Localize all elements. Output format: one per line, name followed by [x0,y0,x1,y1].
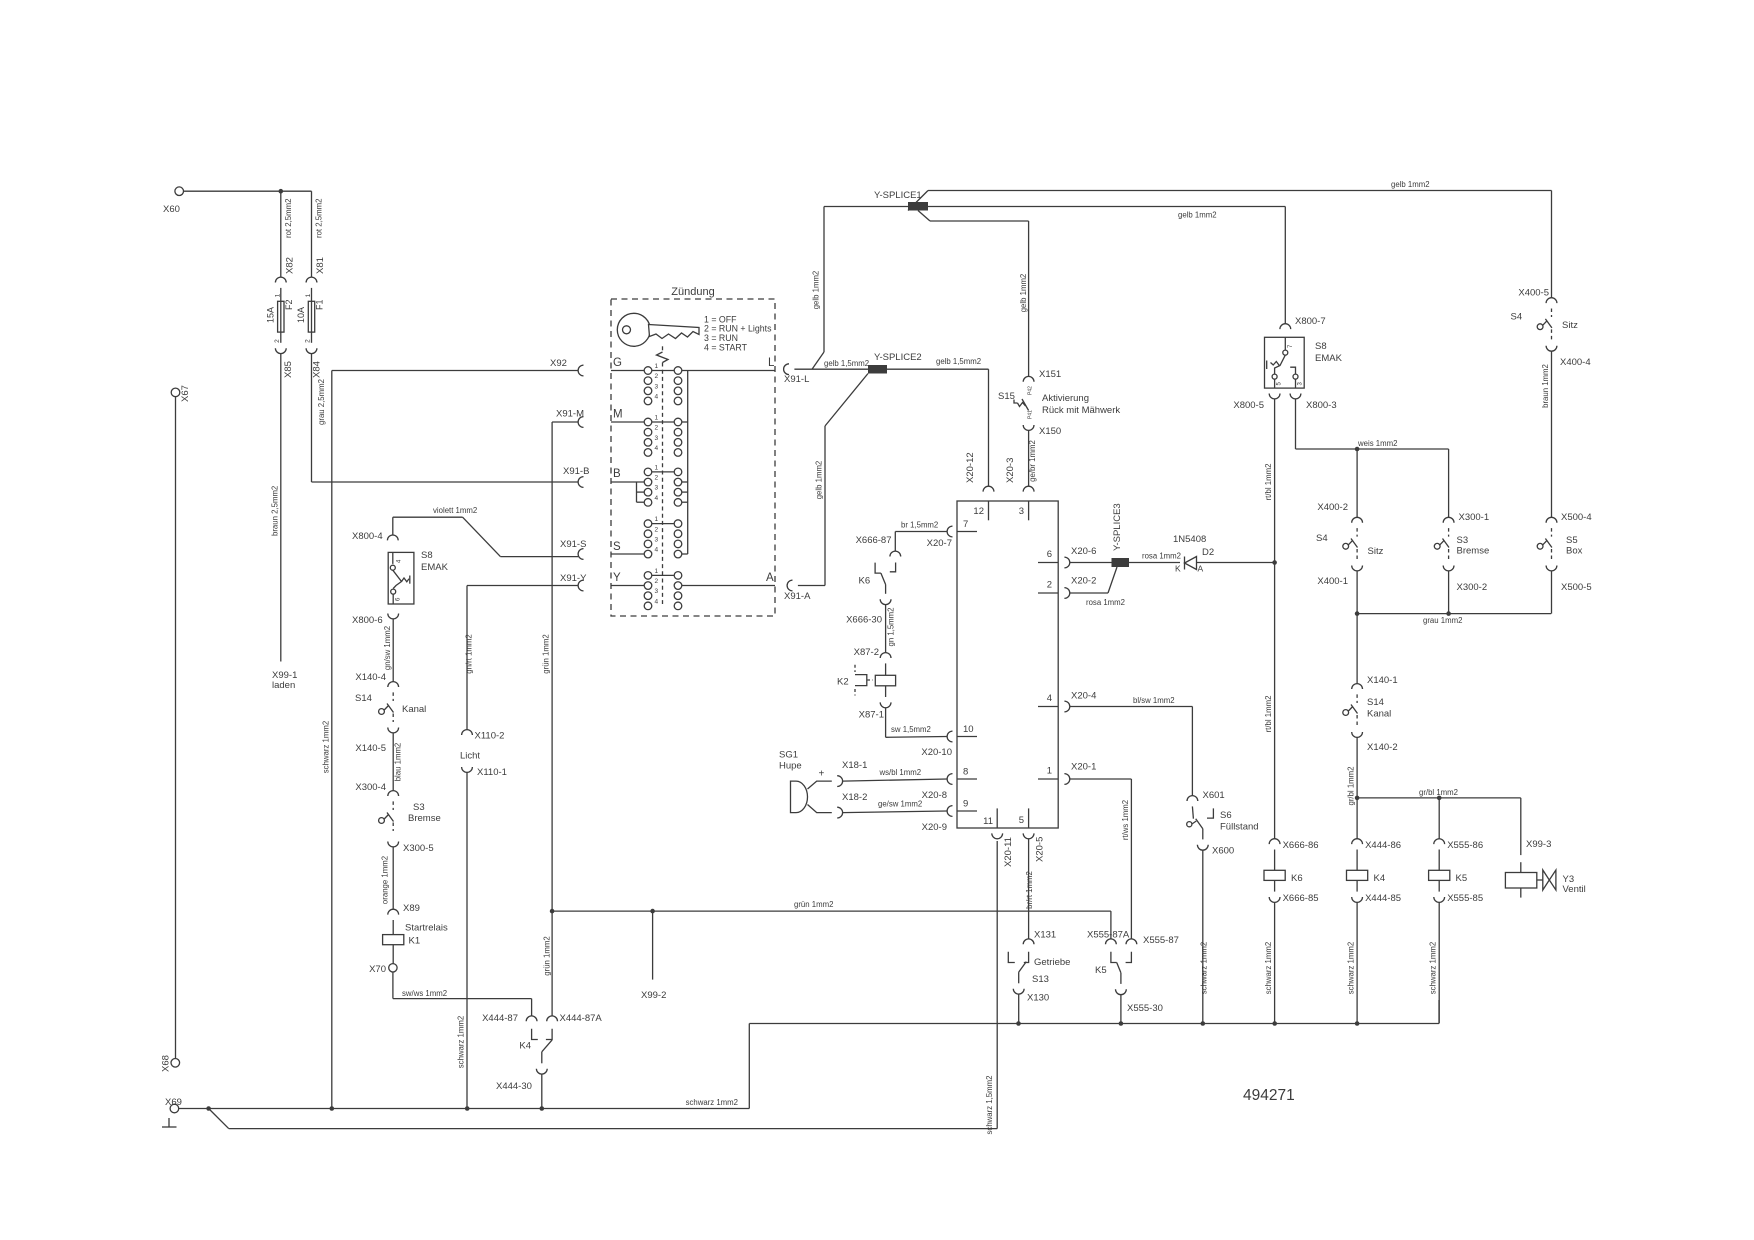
wire grau to X91-B [312,354,579,482]
svg-text:A: A [766,572,774,584]
svg-text:rt/bl 1mm2: rt/bl 1mm2 [1264,696,1273,733]
svg-text:4: 4 [655,445,659,452]
lamp label Licht [460,751,480,762]
wire X91-Y to Licht [464,586,578,730]
junction [650,909,655,914]
wire schwarz S6 [1200,850,1209,1023]
svg-text:Bremse: Bremse [1457,546,1490,557]
ignition contact circles [644,363,682,610]
svg-text:grau 1mm2: grau 1mm2 [1423,616,1462,625]
svg-text:S5: S5 [1566,535,1578,546]
svg-text:X140-1: X140-1 [1367,675,1398,686]
svg-text:K6: K6 [859,576,871,587]
svg-text:5: 5 [1019,815,1024,826]
wire [1129,552,1181,563]
junction [1355,611,1360,616]
svg-text:X555-87A: X555-87A [1087,930,1130,941]
svg-text:Y-SPLICE3: Y-SPLICE3 [1112,503,1123,551]
svg-text:rosa 1mm2: rosa 1mm2 [1086,598,1125,607]
connector X555-86 [1434,839,1483,851]
svg-text:3: 3 [655,536,659,543]
connector X20-10 [921,731,952,758]
connector X400-2 [1317,502,1362,523]
connector X800-3 [1290,394,1337,412]
wire ws/bl [843,768,948,781]
svg-text:+: + [819,769,825,780]
svg-text:X87-1: X87-1 [859,710,884,721]
svg-text:gelb 1mm2: gelb 1mm2 [1019,274,1028,313]
svg-text:ge/br 1mm2: ge/br 1mm2 [1028,440,1037,482]
wire br [895,521,947,552]
connector X85 [275,348,294,378]
wire rosa [1070,562,1112,564]
svg-text:X67: X67 [180,385,191,402]
svg-text:X555-85: X555-85 [1447,893,1483,904]
svg-text:X20-1: X20-1 [1071,762,1096,773]
svg-text:gelb 1mm2: gelb 1mm2 [812,271,821,310]
pin 9 [957,799,977,812]
relay contact K4 [519,1029,552,1064]
svg-text:X500-4: X500-4 [1561,512,1592,523]
svg-text:X444-87A: X444-87A [560,1013,603,1024]
terminal G [611,357,644,371]
svg-text:X400-5: X400-5 [1518,288,1549,299]
wire sw/ws [393,972,532,999]
svg-text:EMAK: EMAK [1315,353,1343,364]
svg-text:X69: X69 [165,1097,182,1108]
svg-text:1: 1 [655,415,659,422]
svg-text:X444-30: X444-30 [496,1081,532,1092]
connector X555-85 [1434,893,1483,904]
svg-text:L: L [768,357,775,369]
junction [550,909,555,914]
relay coil K4 [1347,850,1386,892]
svg-text:X91-M: X91-M [556,409,584,420]
junction [1437,796,1442,801]
pin 6 [1038,549,1058,563]
svg-text:X555-87: X555-87 [1143,935,1179,946]
connector X20-1 [1064,762,1096,785]
svg-text:X89: X89 [403,903,420,914]
svg-text:G: G [613,357,622,369]
wire to X91-A [798,374,868,586]
connector X666-86 [1269,839,1318,851]
svg-text:Aktivierung: Aktivierung [1042,393,1089,404]
svg-text:weis 1mm2: weis 1mm2 [1357,439,1397,448]
terminal B [611,468,644,502]
svg-text:schwarz 1mm2: schwarz 1mm2 [686,1098,738,1107]
svg-text:10: 10 [963,724,974,735]
connector X601 [1187,790,1225,801]
wire bl/sw [1070,696,1193,796]
connector X400-1 [1317,566,1362,588]
svg-text:gelb 1,5mm2: gelb 1,5mm2 [824,359,869,368]
wire orange [381,847,394,909]
svg-text:S8: S8 [421,550,433,561]
connector X400-5 [1518,288,1557,304]
svg-text:X800-4: X800-4 [352,531,383,542]
svg-text:ws/bl 1mm2: ws/bl 1mm2 [879,768,922,777]
splice Y-SPLICE2 [868,352,922,374]
connector X20-12 [965,452,994,491]
svg-text:7: 7 [963,519,968,530]
svg-text:1N5408: 1N5408 [1173,534,1206,545]
connector X91-A [784,580,811,602]
pin 2 [1038,580,1058,594]
svg-text:gelb 1,5mm2: gelb 1,5mm2 [936,357,981,366]
pin 3 [1019,501,1029,520]
svg-text:X85: X85 [283,361,294,378]
connector X140-1 [1352,675,1398,689]
svg-text:X300-4: X300-4 [355,782,386,793]
horn SG1 Hupe [779,750,832,813]
connector X20-7 [927,526,953,549]
connector X140-5 [355,728,398,755]
connector X444-86 [1352,839,1401,851]
svg-text:S14: S14 [355,693,372,704]
svg-text:X91-A: X91-A [784,591,811,602]
svg-text:2: 2 [655,526,659,533]
connector X300-1 [1443,512,1489,523]
svg-text:schwarz 1,5mm2: schwarz 1,5mm2 [985,1076,994,1135]
connector X18-1 [837,760,867,787]
junction [1201,1021,1206,1026]
wire ground bus 2 [209,841,998,1129]
svg-text:gn/rt 1mm2: gn/rt 1mm2 [464,634,473,673]
connector X20-4 [1064,691,1096,712]
connector X18-2 [837,792,867,818]
svg-text:X555-30: X555-30 [1127,1003,1163,1014]
svg-text:X87-2: X87-2 [854,647,879,658]
svg-text:rot 2,5mm2: rot 2,5mm2 [284,199,293,238]
svg-text:Zündung: Zündung [671,286,714,298]
legend [704,314,772,352]
svg-text:M: M [613,409,623,421]
connector X91-M [556,409,584,428]
connector X20-9 [922,806,953,833]
svg-text:X91-S: X91-S [560,539,586,550]
connector X800-7 [1280,316,1326,329]
connector X20-11 [992,833,1014,867]
relay contact K5 [1095,952,1131,984]
svg-text:schwarz 1mm2: schwarz 1mm2 [321,721,330,773]
wire gelb top [928,180,1552,191]
terminal X68 [161,1055,180,1072]
svg-text:X81: X81 [315,257,326,274]
svg-text:X99-3: X99-3 [1526,839,1551,850]
switch S13 Getriebe [1008,952,1070,985]
junction [1119,1021,1124,1026]
connector X300-4 [355,782,398,796]
wire [1448,571,1450,614]
svg-text:X600: X600 [1212,846,1234,857]
wire [541,1074,543,1108]
svg-text:bl/sw 1mm2: bl/sw 1mm2 [1133,696,1175,705]
wire gelb right arm [928,207,1285,324]
svg-text:Sitz: Sitz [1562,320,1578,331]
svg-text:4: 4 [1047,693,1052,704]
connector X20-6 [1064,546,1096,568]
svg-text:Y-SPLICE2: Y-SPLICE2 [874,352,922,363]
svg-text:X91-Y: X91-Y [560,573,587,584]
svg-text:F1: F1 [315,299,325,310]
svg-text:X131: X131 [1034,930,1056,941]
connector X555-30 [1116,989,1163,1014]
svg-text:S3: S3 [413,802,425,813]
svg-text:X300-5: X300-5 [403,843,434,854]
svg-text:grün 1mm2: grün 1mm2 [794,900,833,909]
fuse F2 [266,288,295,343]
switch S8 EMAK left [388,550,448,604]
junction [540,1106,545,1111]
svg-text:X601: X601 [1203,790,1225,801]
svg-text:K4: K4 [1374,873,1386,884]
connector X555-87A [1087,930,1130,945]
svg-text:15A: 15A [266,307,276,323]
svg-text:Y: Y [613,572,621,584]
switch S4 Sitz [1316,528,1384,560]
svg-text:X130: X130 [1027,993,1049,1004]
svg-text:S13: S13 [1032,974,1049,985]
connector X600 [1197,845,1234,857]
svg-text:S4: S4 [1316,533,1328,544]
wire weis [1296,399,1449,449]
svg-text:ge/sw 1mm2: ge/sw 1mm2 [878,800,922,809]
svg-text:3: 3 [655,383,659,390]
wire X99-2 [641,911,666,1001]
connector X151 [1023,369,1061,382]
svg-text:9: 9 [963,799,968,810]
wire [1356,449,1358,517]
svg-text:X20-2: X20-2 [1071,576,1096,587]
svg-text:Kanal: Kanal [1367,709,1391,720]
wire gelb S15 arm [918,211,1029,377]
svg-text:X140-4: X140-4 [355,672,386,683]
svg-text:1: 1 [655,464,659,471]
svg-text:X110-2: X110-2 [475,731,505,742]
svg-text:X151: X151 [1039,369,1061,380]
svg-text:X82: X82 [285,257,296,274]
relay coil K1 Startrelais [383,920,448,964]
svg-text:gelb 1mm2: gelb 1mm2 [1178,211,1217,220]
svg-text:gr/bl 1mm2: gr/bl 1mm2 [1347,767,1356,806]
svg-text:orange 1mm2: orange 1mm2 [381,856,390,904]
svg-text:Startrelais: Startrelais [405,923,448,934]
connector X444-87A [547,1013,603,1024]
terminal M [611,409,644,423]
terminal L [768,357,775,369]
pin 11 [983,808,997,828]
connector X87-2 [854,647,891,658]
connector X140-2 [1352,732,1398,753]
terminal S [611,541,644,554]
connector X130 [1013,989,1049,1004]
junction [465,1106,470,1111]
svg-text:br/rt 1mm2: br/rt 1mm2 [1025,871,1034,909]
svg-text:S4: S4 [1511,312,1523,323]
svg-text:4 = START: 4 = START [704,343,748,353]
wire [1120,995,1122,1024]
wire schwarz [1264,902,1275,1023]
svg-text:rt/ws 1mm2: rt/ws 1mm2 [1121,800,1130,840]
svg-text:X68: X68 [161,1055,172,1072]
svg-text:Box: Box [1566,546,1583,557]
wire gn/sw [383,619,393,682]
terminal X67 [171,385,191,402]
svg-text:1: 1 [655,516,659,523]
connector X20-5 [1023,833,1045,862]
wire rt/ws [1070,779,1132,939]
connector X91-B [563,466,589,487]
wire sw [886,708,948,738]
wire label [686,1098,738,1107]
key shaft [657,346,669,604]
svg-text:P42: P42 [1028,386,1034,395]
terminal A [766,572,774,584]
svg-text:X444-86: X444-86 [1365,840,1401,851]
svg-text:3: 3 [655,435,659,442]
wire schwarz X92 [321,371,578,1109]
svg-text:11: 11 [983,816,993,827]
svg-text:Bremse: Bremse [408,813,441,824]
svg-text:schwarz 1mm2: schwarz 1mm2 [1264,942,1273,994]
svg-text:X555-86: X555-86 [1447,840,1483,851]
terminal X70 [369,964,397,975]
wire gelb left arm [812,207,909,370]
switch S5 Box [1537,528,1582,560]
svg-text:2: 2 [305,339,312,343]
wire gr/bl bus [1357,788,1521,798]
junction [1272,1021,1277,1026]
ignition switch box Zuendung [611,286,775,616]
contact links [652,371,775,586]
svg-text:X800-3: X800-3 [1306,400,1337,411]
svg-text:X150: X150 [1039,426,1061,437]
svg-text:Sitz: Sitz [1368,546,1384,557]
junction [1272,560,1277,565]
switch S3 Bremse [379,801,441,831]
pin 8 [957,767,977,780]
wire violett [393,506,578,557]
svg-text:X92: X92 [550,358,567,369]
svg-text:1: 1 [655,363,659,370]
svg-text:X20-5: X20-5 [1035,837,1046,862]
svg-text:blau 1mm2: blau 1mm2 [394,743,403,782]
svg-text:schwarz 1mm2: schwarz 1mm2 [1429,942,1438,994]
svg-text:Ventil: Ventil [1563,884,1586,895]
connector X110-2 [462,730,505,742]
svg-text:gr/bl 1mm2: gr/bl 1mm2 [1419,788,1458,797]
svg-text:sw 1,5mm2: sw 1,5mm2 [891,725,931,734]
svg-text:X800-6: X800-6 [352,615,383,626]
connector X84 [306,348,322,378]
collector wire [687,371,689,555]
connector X150 [1023,425,1061,437]
svg-text:B: B [613,468,621,480]
wire rt/bl [1264,399,1275,839]
drawing number [1243,1087,1295,1104]
svg-text:1: 1 [655,568,659,575]
connector X800-4 [352,531,398,542]
connector X131 [1023,930,1056,945]
connector X81 [306,277,317,282]
solenoid Y3 Ventil [1505,862,1585,897]
svg-text:X20-11: X20-11 [1003,837,1014,867]
terminal X69 [165,1097,182,1113]
svg-text:S8: S8 [1315,341,1327,352]
ground [162,1118,177,1127]
wire schwarz [1429,902,1440,1023]
svg-text:X300-2: X300-2 [1457,582,1488,593]
connector X300-5 [388,842,434,855]
svg-text:X99-2: X99-2 [641,990,666,1001]
switch S14 Kanal [355,692,426,722]
svg-text:X91-L: X91-L [784,374,809,385]
svg-text:X400-2: X400-2 [1317,502,1348,513]
svg-text:3: 3 [1019,506,1024,517]
wire [1356,798,1358,839]
svg-text:braun 2,5mm2: braun 2,5mm2 [271,486,280,536]
svg-text:X444-85: X444-85 [1365,893,1401,904]
svg-text:EMAK: EMAK [421,562,449,573]
svg-text:2: 2 [655,373,659,380]
switch S6 Fuellstand [1187,806,1259,839]
svg-text:sw/ws 1mm2: sw/ws 1mm2 [402,989,447,998]
svg-text:X400-4: X400-4 [1560,357,1591,368]
wire gruen X91-M [542,422,579,1016]
svg-text:D2: D2 [1202,547,1214,558]
wire [1448,449,1450,517]
svg-text:F2: F2 [284,299,294,310]
terminal X99-1 laden [272,670,297,691]
svg-text:X444-87: X444-87 [482,1013,518,1024]
svg-text:4: 4 [655,495,659,502]
pin 10 [957,724,977,737]
wire [175,397,177,1059]
connector X92 [550,358,584,376]
svg-text:K: K [1175,564,1181,574]
wire rosa 2 [1070,567,1125,607]
svg-text:A: A [1198,564,1204,574]
svg-text:X140-5: X140-5 [355,743,386,754]
junction [330,1106,335,1111]
connector X400-4 [1546,346,1591,368]
svg-text:Getriebe: Getriebe [1034,957,1070,968]
connector X666-87 [856,535,901,557]
relay coil K2 [837,663,896,697]
svg-text:8: 8 [963,767,968,778]
connector X20-2 [1064,576,1096,599]
connector X800-5 [1233,394,1280,412]
connector X91-Y [560,573,587,591]
wire [312,191,327,277]
svg-text:K2: K2 [837,677,849,688]
relay coil K6 [1264,850,1303,892]
svg-text:X20-10: X20-10 [921,747,952,758]
switch S4 Sitz top [1511,309,1579,341]
pin 5 [1019,808,1029,828]
svg-text:4: 4 [655,393,659,400]
wire [1356,571,1358,614]
wire [1018,994,1020,1023]
wire ge/br [1028,430,1037,486]
connector X89 [388,903,420,915]
key icon [617,313,699,346]
terminal Y [611,572,644,586]
wire [184,190,312,192]
wire [1551,191,1553,298]
svg-text:X20-4: X20-4 [1071,691,1096,702]
